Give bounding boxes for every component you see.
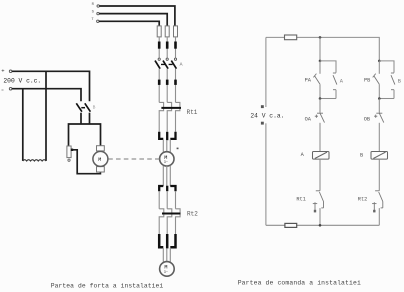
node junction parallel bottom A: [319, 97, 322, 100]
button PA: [313, 74, 320, 85]
thermal relay Rt2 bar: [162, 213, 180, 215]
node junction bottom middle: [319, 224, 322, 227]
wire coil B to Rt2 contact: [378, 159, 380, 191]
node plus terminal: [9, 70, 12, 73]
wire parallel top link A: [320, 61, 336, 73]
contactor A pole 1: [158, 58, 177, 60]
wire bold jog-out brackets below motor M1: [159, 186, 175, 192]
wire tap to motor bottom: [71, 150, 100, 174]
node junction parallel top B: [378, 60, 381, 63]
svg-text:PA: PA: [305, 77, 312, 83]
wire phase R feed: [99, 6, 174, 26]
node tap junction: [71, 149, 73, 151]
wire Rt1 contact to bottom rail: [319, 208, 321, 225]
wire parallel bottom link B: [379, 98, 394, 100]
button PB: [373, 74, 380, 85]
fuse F3: [174, 26, 178, 37]
svg-text:3~: 3~: [164, 161, 168, 165]
svg-text:B: B: [398, 78, 401, 84]
wire plus bus: [12, 71, 90, 101]
button OB (NC): [374, 113, 384, 122]
svg-text:A: A: [180, 62, 183, 68]
resistor starting rheostat: [67, 146, 71, 158]
svg-text:Rt1: Rt1: [187, 109, 198, 116]
fuse F2: [165, 26, 169, 37]
label a (shaft mark): [177, 148, 179, 150]
svg-text:Partea de comanda a instalatie: Partea de comanda a instalatiei: [238, 280, 361, 287]
wire converge into motor M1: [163, 140, 170, 153]
wire switch B to armature loop: [80, 113, 82, 124]
contact B auxiliary: [391, 73, 395, 90]
svg-text:M: M: [98, 157, 101, 163]
wire minus bus: [12, 89, 81, 102]
wire control bottom rail: [266, 224, 379, 226]
wire PB upper stub: [378, 61, 380, 74]
node R phase terminal: [97, 5, 100, 23]
wire coil A to Rt1 contact: [319, 159, 321, 191]
wire parallel top link B: [379, 61, 394, 73]
contact Rt1 (NC thermal): [313, 191, 324, 211]
node junction top middle: [319, 36, 322, 39]
field winding left leg: [22, 89, 24, 161]
brush top of DC motor: [97, 146, 105, 151]
wire bold cable marks below fuses: [159, 42, 175, 49]
thermal relay Rt1 heater jogs: [159, 102, 180, 131]
wire Rt2 contact to bottom rail: [378, 208, 380, 225]
thermal relay Rt2 heater jogs: [159, 209, 180, 234]
svg-text:B: B: [360, 152, 363, 158]
wire middle branch top: [319, 37, 321, 61]
contact Rt2 (NC thermal): [372, 191, 383, 211]
svg-text:3~: 3~: [164, 271, 168, 275]
thermal relay Rt1 bar: [161, 107, 181, 109]
node source terminal bottom: [261, 122, 264, 125]
field winding right leg: [45, 71, 47, 161]
wire A aux lower stub: [335, 90, 337, 99]
node minus terminal: [9, 87, 12, 90]
field winding wavy element: [23, 160, 46, 161]
wire control left rail upper: [265, 37, 267, 107]
wire bold cable marks below contactor: [159, 80, 175, 85]
svg-text:Rt1: Rt1: [296, 197, 306, 203]
wire PA upper stub: [319, 61, 321, 74]
coil B: [371, 152, 388, 160]
motor M2 (asynchronous): [160, 262, 175, 277]
contact A auxiliary: [333, 73, 337, 90]
switch B blades: [76, 103, 90, 111]
wire exit below motor M1: [163, 166, 170, 186]
wire armature top rail: [69, 124, 101, 146]
contactor A blades: [155, 61, 176, 69]
svg-text:Partea de forta a instalatiei: Partea de forta a instalatiei: [51, 282, 164, 289]
wire column L1 upper: [159, 37, 175, 58]
wire phase S feed: [99, 14, 167, 26]
contactor A mechanical link: [161, 63, 175, 65]
wire phase T feed: [99, 21, 159, 26]
wire parallel bottom link A: [320, 98, 336, 100]
wire column L1 mid: [159, 69, 175, 103]
svg-text:PB: PB: [364, 77, 370, 83]
wire converge into motor M2: [163, 248, 170, 262]
wire column to Rt2: [159, 191, 175, 209]
node open terminal below rheostat: [68, 159, 70, 161]
svg-text:M: M: [164, 155, 167, 161]
switch B link: [81, 107, 85, 109]
fuse control bottom: [285, 223, 297, 227]
wire control top rail: [266, 37, 379, 61]
node source terminal top: [261, 105, 264, 108]
coil A: [313, 152, 330, 160]
svg-text:OB: OB: [364, 117, 370, 123]
wire bold brackets above motor M2: [159, 234, 175, 248]
button OA (NC): [315, 113, 325, 122]
wire PA lower stub: [319, 84, 321, 98]
svg-text:M: M: [164, 265, 167, 271]
brush bottom of DC motor: [97, 167, 105, 172]
svg-text:Rt2: Rt2: [187, 211, 198, 218]
wire control left rail lower: [265, 123, 267, 225]
wire bold jog-in brackets above motor M1: [159, 132, 175, 140]
node Rt1 element tip: [314, 210, 316, 213]
wire to OB: [378, 99, 380, 113]
wire OA to coil A: [319, 123, 321, 152]
wire to OA: [319, 99, 321, 113]
wire B aux lower stub: [393, 90, 395, 99]
fuse F1: [157, 26, 161, 37]
svg-text:OA: OA: [305, 117, 312, 123]
wire PB lower stub: [378, 84, 380, 98]
motor M3 (DC): [93, 151, 108, 166]
motor M1 (asynchronous): [160, 152, 174, 166]
svg-text:24 V c.a.: 24 V c.a.: [250, 113, 284, 120]
svg-text:B: B: [93, 104, 96, 110]
node Rt2 element tip: [373, 210, 375, 213]
fuse control top: [285, 35, 297, 40]
wire mechanical coupling dashed: [108, 158, 159, 160]
node junction parallel top A: [319, 60, 322, 63]
node junction parallel bottom B: [378, 97, 381, 100]
wire OB to coil B: [378, 123, 380, 152]
svg-text:Rt2: Rt2: [358, 197, 368, 203]
svg-text:200 V c.c.: 200 V c.c.: [3, 77, 41, 84]
